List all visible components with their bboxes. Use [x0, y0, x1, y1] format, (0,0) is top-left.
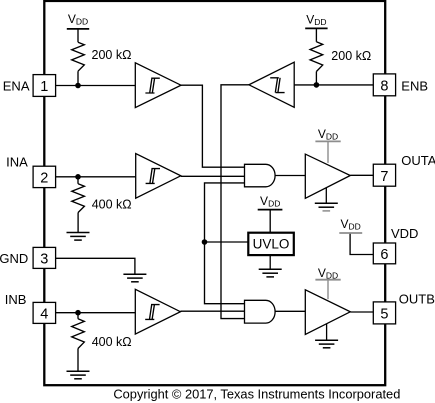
node UVLO bus junction [202, 239, 208, 245]
svg-text:200 kΩ: 200 kΩ [92, 48, 132, 62]
resistor 200k ENB pull-up [310, 42, 323, 85]
wire OUTA buffer output to pin7 [350, 174, 373, 176]
svg-text:OUTB: OUTB [399, 291, 435, 306]
svg-text:VDD: VDD [68, 12, 88, 27]
pin 7 box [373, 164, 395, 186]
pin 1 box [33, 75, 56, 97]
op-amp style Schmitt buffer INB [135, 289, 180, 334]
wire ENA buffer output to AND A top input [181, 85, 245, 167]
wire VDD symbol to pin6 [350, 233, 373, 255]
wire ENB buffer output to AND B bottom input [221, 85, 249, 319]
svg-text:INA: INA [6, 155, 28, 170]
pin 2 box [33, 166, 56, 187]
svg-text:VDD: VDD [260, 194, 280, 209]
svg-text:4: 4 [40, 307, 48, 323]
AND gate B [245, 300, 276, 323]
svg-text:UVLO: UVLO [253, 236, 290, 251]
power VDD for 200k ENB pull-up [305, 12, 327, 42]
svg-text:OUTA: OUTA [401, 153, 435, 168]
ground below OUTB buffer [315, 324, 338, 348]
svg-text:1: 1 [40, 79, 48, 95]
node INA junction [75, 174, 81, 180]
svg-text:ENA: ENA [3, 78, 30, 93]
pin 4 box [33, 302, 56, 323]
wire pin3 GND to ground symbol [56, 258, 135, 274]
svg-text:6: 6 [380, 247, 388, 263]
resistor 400k INA pull-down [72, 177, 85, 233]
svg-text:VDD: VDD [318, 266, 338, 281]
power VDD for 200k ENA pull-up [67, 12, 89, 42]
node INB junction [75, 310, 81, 316]
node ENA junction [75, 83, 81, 89]
wire AND A output to OUTA buffer [275, 175, 305, 177]
wire ENB buffer input to pin8 [294, 84, 373, 86]
svg-text:VDD: VDD [340, 217, 360, 232]
wire INA buffer output to AND A middle input [181, 175, 245, 177]
wire pin1 to ENA buffer [56, 85, 136, 87]
svg-text:200 kΩ: 200 kΩ [331, 49, 371, 63]
svg-text:Copyright © 2017, Texas Instru: Copyright © 2017, Texas Instruments Inco… [113, 386, 400, 401]
pin 3 box [33, 247, 56, 268]
svg-text:INB: INB [5, 292, 27, 307]
wire pin4 to INB buffer [56, 312, 136, 314]
wire UVLO bus: AND A bottom input down to AND B top input [205, 183, 245, 304]
power VDD above UVLO [258, 194, 283, 233]
svg-text:GND: GND [0, 251, 28, 266]
pin 8 box [373, 74, 395, 96]
svg-text:8: 8 [380, 79, 388, 95]
svg-text:400 kΩ: 400 kΩ [92, 198, 132, 212]
op-amp output buffer OUTB [305, 290, 350, 335]
op-amp style Schmitt buffer ENB (points left) [249, 62, 294, 107]
svg-text:400 kΩ: 400 kΩ [92, 335, 132, 349]
svg-text:ENB: ENB [401, 78, 428, 93]
wire INB buffer output to AND B middle input [180, 310, 244, 312]
ground below INB resistor [67, 371, 90, 379]
ground below OUTA buffer [315, 188, 338, 211]
svg-text:VDD: VDD [391, 226, 418, 241]
svg-text:VDD: VDD [306, 12, 326, 27]
op-amp style Schmitt buffer ENA [135, 63, 181, 108]
UVLO block U1 [248, 233, 293, 255]
wire UVLO block to UVLO bus [205, 241, 249, 243]
AND gate A [245, 164, 276, 187]
IC outline box [44, 1, 385, 385]
power VDD above OUTA buffer (gray) [315, 127, 340, 163]
ground below INA resistor [67, 233, 90, 241]
svg-text:5: 5 [380, 307, 388, 323]
resistor 200k ENA pull-up [72, 42, 85, 85]
op-amp style Schmitt buffer INA [136, 154, 181, 199]
resistor 400k INB pull-down [72, 313, 85, 372]
svg-text:3: 3 [40, 252, 48, 268]
pin 6 box [373, 243, 395, 264]
wire pin2 to INA buffer [56, 176, 136, 178]
op-amp output buffer OUTA [305, 154, 350, 198]
ground below UVLO [259, 255, 282, 277]
svg-text:7: 7 [380, 169, 388, 185]
node ENB junction [314, 82, 320, 88]
wire OUTB buffer output to pin5 [350, 311, 373, 313]
wire AND B output to OUTB buffer [275, 310, 305, 312]
svg-text:2: 2 [40, 171, 48, 187]
pin 5 box [373, 302, 395, 324]
power VDD for pin6 (gray bar) [339, 217, 362, 233]
ground for pin3 GND [123, 274, 146, 282]
power VDD above OUTB buffer (gray) [315, 266, 340, 299]
svg-text:VDD: VDD [318, 127, 338, 142]
